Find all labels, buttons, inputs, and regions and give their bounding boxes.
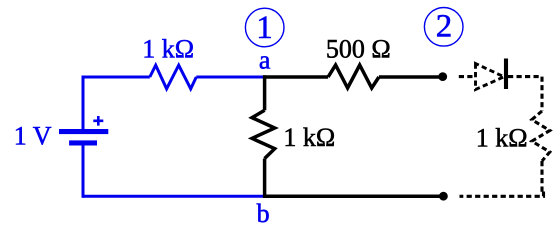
terminal dot (top, node 2): [438, 72, 447, 81]
terminal dot (bottom): [439, 192, 448, 201]
wire: black vertical from R2 down to node b: [263, 159, 267, 199]
wire: blue bottom segment from battery to node b: [83, 195, 264, 198]
svg-text:1 kΩ: 1 kΩ: [283, 123, 335, 152]
diode D1 (dashed triangle): [476, 64, 505, 90]
wire: dashed right vertical from R4 down to bottom-right corner: [540, 161, 543, 194]
diode D1 cathode bar (solid): [504, 59, 508, 90]
battery V1 plus sign: [93, 116, 103, 126]
svg-text:1: 1: [256, 10, 273, 46]
wire: black top segment from R3 to terminal 1: [379, 75, 443, 79]
wire: black bottom segment from node b to bottom terminal: [263, 195, 443, 199]
battery V1 positive plate (long): [59, 129, 108, 134]
wire: dashed right vertical down to resistor R4: [540, 77, 543, 111]
wire: dashed from top terminal to diode anode: [459, 75, 476, 78]
wire: blue left vertical from battery - plate down to bottom wire: [82, 145, 85, 198]
wire: blue top-left segment from battery to resistor R1: [83, 76, 150, 79]
svg-text:1 kΩ: 1 kΩ: [476, 123, 528, 152]
resistor R2 1 kΩ (black, vertical): [252, 110, 275, 158]
svg-text:a: a: [259, 46, 271, 75]
svg-text:1 V: 1 V: [14, 121, 52, 150]
wire: dashed from diode cathode to top-right corner: [508, 75, 542, 78]
svg-text:2: 2: [436, 9, 453, 45]
wire: black top segment from node a to resistor R3: [263, 75, 328, 79]
wire: blue left vertical from top wire down to battery + plate: [82, 76, 85, 130]
node 1 marker circle: [245, 8, 284, 47]
resistor R3 500 Ω (black, horizontal): [328, 65, 379, 88]
svg-text:500 Ω: 500 Ω: [326, 35, 391, 64]
resistor R1 1 kΩ (blue, horizontal): [150, 65, 197, 89]
resistor R4 1 kΩ (dashed, vertical): [532, 111, 550, 161]
svg-text:1 kΩ: 1 kΩ: [142, 34, 194, 63]
wire: black vertical at node a down to resistor R2: [263, 75, 267, 110]
wire: dashed bottom from bottom-right corner to bottom terminal: [460, 192, 544, 197]
battery V1 negative plate (short): [69, 140, 97, 145]
node 2 marker circle: [424, 8, 463, 47]
svg-text:b: b: [257, 199, 270, 228]
wire: blue top segment from R1 to node a: [196, 76, 263, 79]
